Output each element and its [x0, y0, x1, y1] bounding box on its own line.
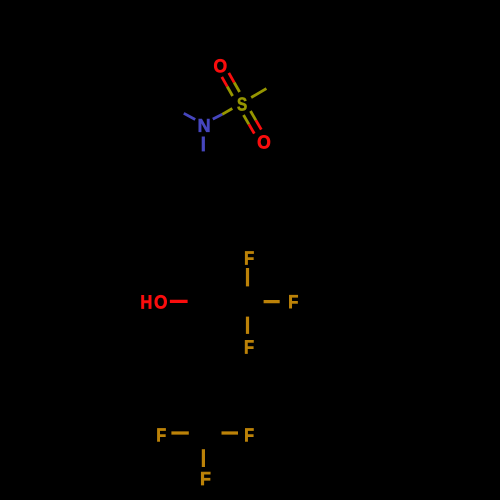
atom F4 (CF3b left) [157, 428, 165, 441]
bond S=O bottom line A (olive half) [244, 115, 249, 124]
atom F1 (CF3a top) [245, 252, 253, 265]
bond S=O top line A (red half) [222, 77, 227, 87]
atom F3 (CF3a bottom) [245, 340, 253, 353]
atom F5 (CF3b right) [245, 428, 253, 441]
bond S-CH3 (olive half) [251, 89, 266, 98]
bond S=O bottom line B (red half) [256, 120, 261, 129]
bond C-F1 (gold half) [246, 268, 249, 286]
atom F6 (CF3b bottom) [201, 472, 210, 485]
bond S=O bottom line A (red half) [249, 124, 254, 133]
bond C-F6 (gold half) [202, 449, 205, 467]
atom O (sulfonyl bottom) [258, 135, 270, 148]
bond C-F2 (gold half) [264, 300, 280, 303]
hydroxyl H [142, 295, 152, 308]
atom O (sulfonyl top) [214, 59, 226, 72]
bond N-S (olive half) [222, 109, 232, 115]
bond N-S (blue half) [213, 114, 223, 119]
bond S=O top line B (olive half) [234, 83, 239, 93]
atom S (sulfonyl) [237, 97, 246, 110]
bond N-CH2 (blue half) [202, 137, 205, 152]
bond N-CH3 (blue half) [184, 113, 195, 119]
bond S=O bottom line B (olive half) [251, 111, 256, 120]
bond C-F3 (gold half) [246, 317, 249, 334]
atom F2 (CF3a right) [289, 295, 297, 308]
bond C-F5 (gold half) [222, 431, 239, 434]
bond C-F4 (gold half) [171, 431, 188, 434]
bond S=O top line A (olive half) [227, 87, 232, 97]
bond HO-C (red half) [170, 300, 188, 303]
hydroxyl O [155, 295, 167, 308]
atom N [199, 119, 210, 132]
bond S=O top line B (red half) [229, 73, 234, 83]
